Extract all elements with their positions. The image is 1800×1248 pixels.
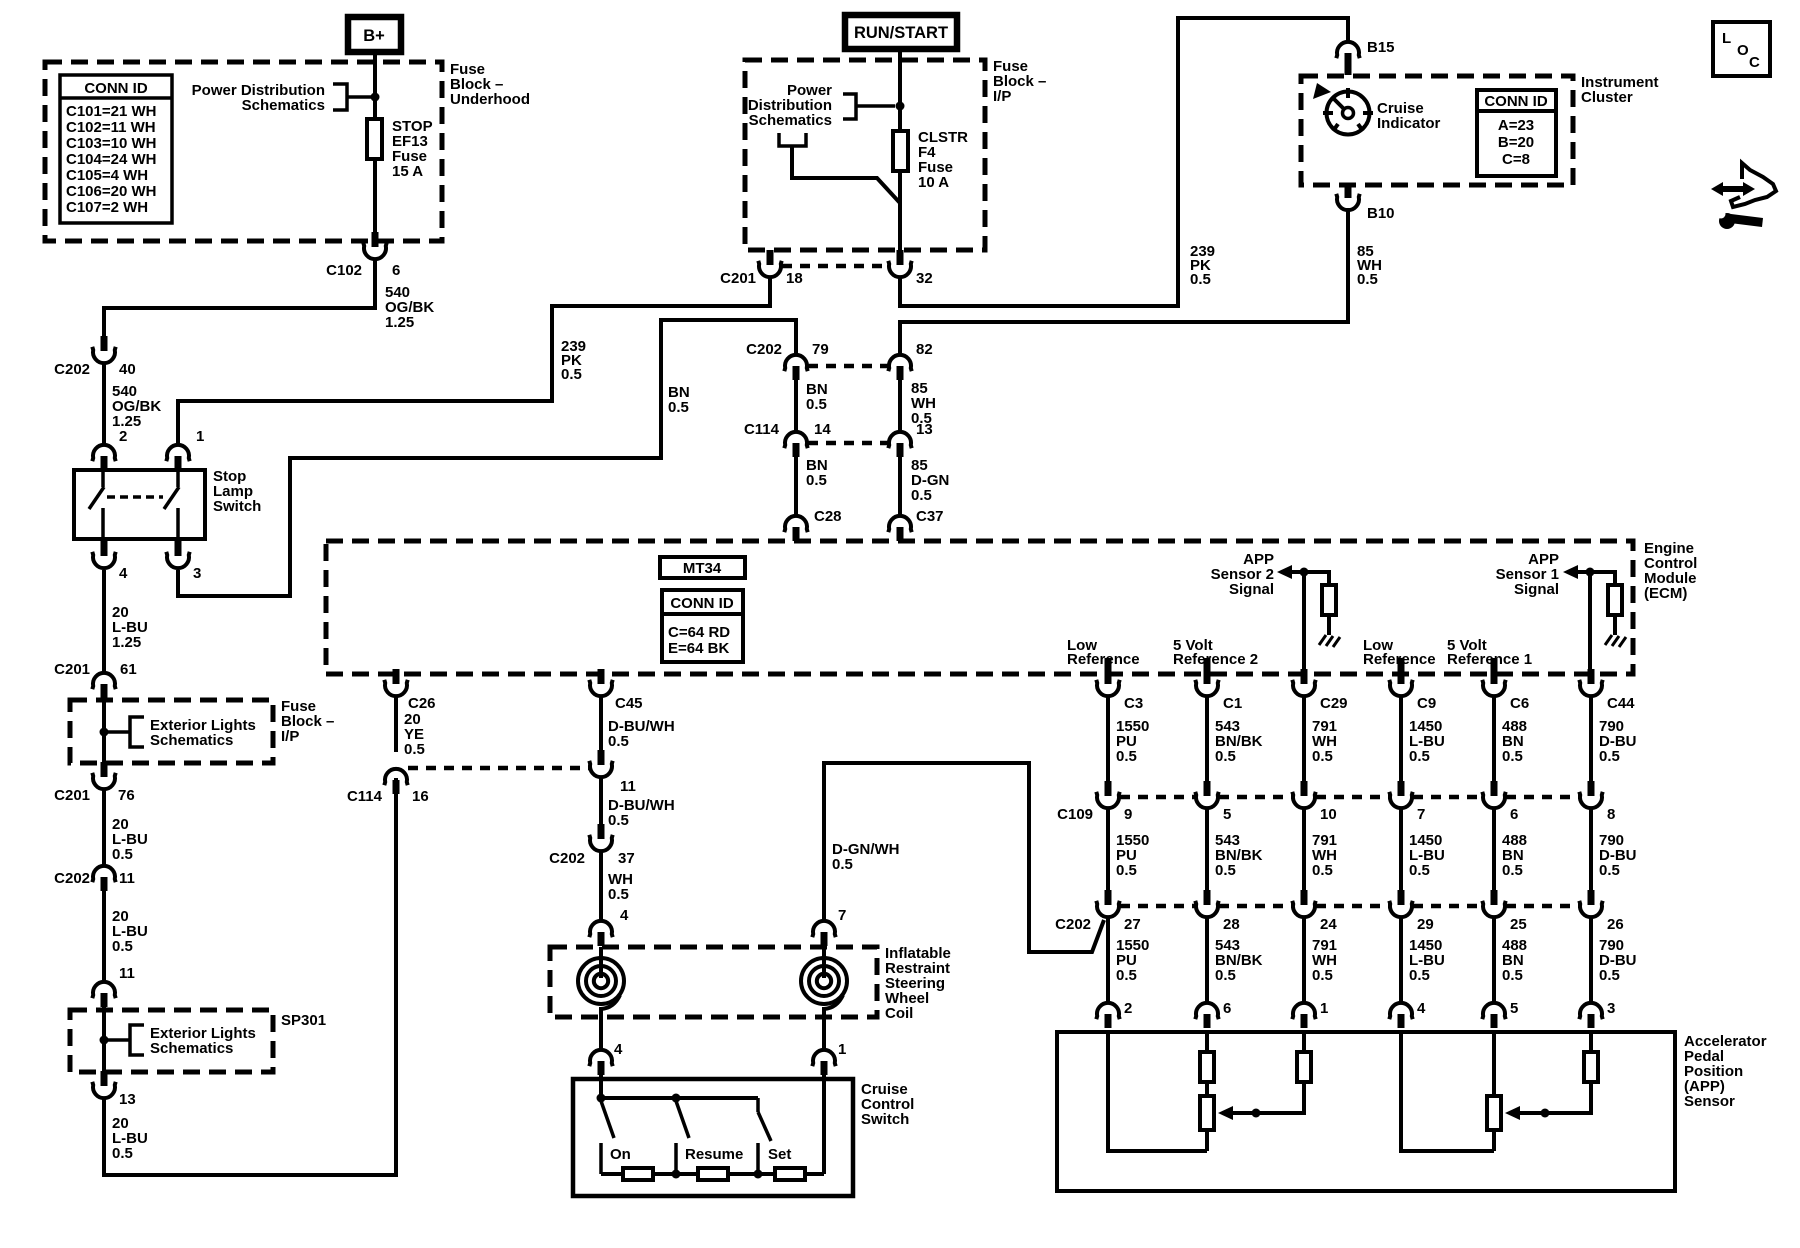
wire label 20 YE 0.5 (404, 711, 425, 758)
wire C9 down (1399, 695, 1403, 781)
dashed connector row C201 (782, 264, 888, 269)
wire label 543 BN/BK 0.5 (row3) (1215, 937, 1263, 984)
label 5 volt reference 1 (1447, 637, 1532, 668)
wire label 239 PK 0.5 (riser) (1190, 243, 1215, 288)
connector stop lamp pin 4 (92, 541, 128, 582)
svg-text:Underhood: Underhood (450, 91, 530, 108)
resistor resume (698, 1168, 728, 1180)
svg-text:C3: C3 (1124, 695, 1143, 712)
svg-text:C106=20 WH: C106=20 WH (66, 183, 156, 200)
svg-text:0.5: 0.5 (1312, 748, 1333, 765)
power feed RUN/START (845, 15, 957, 49)
label 5 volt reference 2 (1173, 637, 1258, 668)
wire fuse to C102 (373, 159, 377, 243)
coil spiral left (578, 947, 624, 1050)
switch contact left upper (101, 470, 105, 487)
wire pin 2 internal (1108, 1032, 1207, 1151)
svg-text:I/P: I/P (281, 728, 299, 745)
svg-text:Sensor: Sensor (1684, 1093, 1735, 1110)
wire pin 4 to C201-61 (102, 570, 106, 673)
junction dot wiper 2 (1252, 1109, 1261, 1118)
wire label 488 BN 0.5 (row1 col C6) (1502, 718, 1527, 765)
svg-text:C44: C44 (1607, 695, 1635, 712)
junction dot APP sensor 2 (1300, 568, 1309, 577)
label inflatable restraint steering wheel coil (885, 945, 951, 1022)
wire C202-40 to stop lamp switch pin 2 (102, 362, 106, 445)
wire to pull-up resistor 2 (1304, 572, 1329, 585)
wire label 1550 PU 0.5 (row3) (1116, 937, 1149, 984)
svg-text:0.5: 0.5 (1409, 748, 1430, 765)
potentiometer APP sensor 1 (1487, 1096, 1501, 1130)
wire label 540 OG/BK 1.25 (upper) (385, 284, 434, 331)
svg-text:0.5: 0.5 (1116, 967, 1137, 984)
instrument cluster box (1301, 76, 1573, 185)
svg-text:0.5: 0.5 (1312, 967, 1333, 984)
wire label 1550 PU 0.5 (row2) (1116, 832, 1149, 879)
connector C1 (1195, 669, 1242, 712)
svg-text:0.5: 0.5 (608, 812, 629, 829)
connector cruise pin 1 (812, 1050, 835, 1066)
svg-text:37: 37 (618, 850, 635, 867)
dashed connector row C114-16 to 11 (408, 766, 589, 771)
connector C109 pin 6 (1482, 781, 1518, 823)
wire label 85 WH 0.5 (above C114-13) (911, 380, 936, 427)
wire label BN 0.5 (above C114-14) (806, 381, 828, 413)
connector C3 (1096, 669, 1143, 712)
wire C1 down (1205, 695, 1209, 781)
svg-text:C114: C114 (347, 788, 383, 805)
svg-text:10 A: 10 A (918, 174, 949, 191)
connector C114 pin 13 (888, 421, 932, 457)
svg-text:C109: C109 (1057, 806, 1093, 823)
svg-text:0.5: 0.5 (1116, 862, 1137, 879)
svg-text:L: L (1722, 30, 1731, 47)
svg-text:0.5: 0.5 (1357, 271, 1378, 288)
connector C114 pin 16 (347, 769, 429, 805)
wire C109-7 down (1399, 807, 1403, 890)
connector SP301 pin 13 (92, 1071, 135, 1108)
resistor wiper feed (col 3) (1584, 1052, 1598, 1082)
svg-text:5: 5 (1223, 806, 1231, 823)
svg-text:C1: C1 (1223, 695, 1242, 712)
stub 5 volt reference 1 C6 (1491, 658, 1498, 674)
label power distribution schematics (underhood) (192, 82, 325, 114)
svg-text:Set: Set (768, 1146, 791, 1163)
wire label 791 WH 0.5 (row1 col C29) (1312, 718, 1337, 765)
label cruise control switch (861, 1081, 914, 1128)
svg-text:18: 18 (786, 270, 803, 287)
connector C202 pin 37 (549, 824, 635, 867)
resistor on (623, 1168, 653, 1180)
svg-text:0.5: 0.5 (1599, 748, 1620, 765)
label low reference (C9) (1363, 637, 1436, 668)
svg-text:1: 1 (838, 1041, 846, 1058)
wire D-GN/WH from ECM area to coil pin 7 (824, 763, 1104, 952)
connector C202 pin 25 (1482, 890, 1526, 933)
svg-text:1.25: 1.25 (112, 634, 141, 651)
wire label 1450 L-BU 0.5 (row1 col C9) (1409, 718, 1445, 765)
connector C28 (784, 508, 841, 541)
wire C202-37 to coil pin 4 (599, 850, 603, 921)
arrow APP sensor 2 (1277, 565, 1292, 579)
MT34 box (660, 557, 745, 578)
service icon wrench (1717, 210, 1764, 230)
label fuse block IP left (281, 698, 334, 745)
wire potentiometer to bottom (col 5) (1492, 1130, 1496, 1151)
connector C26 (384, 669, 435, 712)
svg-text:SP301: SP301 (281, 1012, 326, 1029)
wire label WH 0.5 (608, 871, 633, 903)
svg-text:26: 26 (1607, 916, 1624, 933)
connector stop lamp pin 1 (166, 445, 189, 461)
wire resistor 1 to ground (1613, 615, 1617, 635)
wire label 791 WH 0.5 (row2) (1312, 832, 1337, 879)
wire pin 4 into switch (599, 1075, 603, 1098)
dashed connector row C202 (1120, 904, 1195, 909)
wire label 791 WH 0.5 (row3) (1312, 937, 1337, 984)
svg-text:28: 28 (1223, 916, 1240, 933)
bracket to wire (IP) (843, 94, 856, 119)
ground APP sensor 2 (1319, 635, 1340, 647)
wire C29 down (1302, 695, 1306, 781)
svg-text:C202: C202 (54, 870, 90, 887)
svg-text:0.5: 0.5 (112, 846, 133, 863)
connector pin 11 (C45 chain) (589, 750, 636, 795)
svg-text:C101=21 WH: C101=21 WH (66, 103, 156, 120)
svg-text:0.5: 0.5 (608, 733, 629, 750)
resistor APP sensor 1 (1608, 585, 1622, 615)
connector C201 pin 18 (720, 250, 803, 287)
svg-text:0.5: 0.5 (1599, 862, 1620, 879)
wire C109-10 down (1302, 807, 1306, 890)
wire lower bracket to fuse output (792, 146, 900, 203)
svg-text:0.5: 0.5 (668, 399, 689, 416)
bracket exterior lights (upper) (104, 730, 130, 734)
svg-text:76: 76 (118, 787, 135, 804)
wire RUN/START down (898, 49, 902, 131)
lower bracket under schematics label (779, 133, 806, 146)
wire label BN 0.5 (riser) (668, 384, 690, 416)
svg-text:3: 3 (1607, 1000, 1615, 1017)
wire fuse to C201-32 (898, 171, 902, 251)
connector APP sensor pin 3 (1579, 1000, 1615, 1028)
resistor APP sensor 2 (1322, 585, 1336, 615)
wire C114-13 to C37 (898, 457, 902, 516)
wire label D-GN/WH 0.5 (832, 841, 900, 873)
wire inside SP301 (102, 1007, 106, 1072)
connector C109 pin 5 (1195, 781, 1231, 823)
svg-text:0.5: 0.5 (1502, 967, 1523, 984)
label power distribution schematics (IP) (748, 82, 832, 129)
engine control module box (326, 541, 1633, 674)
connector C6 (1482, 669, 1529, 712)
svg-text:RUN/START: RUN/START (854, 24, 948, 42)
connector APP sensor pin 6 (1195, 1000, 1231, 1028)
fuse STOP EF13 15A (367, 118, 433, 180)
junction dot RUN/START wire (896, 102, 905, 111)
svg-text:79: 79 (812, 341, 829, 358)
wire BN from pin 3 to C202-79 (178, 320, 796, 596)
connector C109 pin 10 (1292, 781, 1336, 823)
wire resistor to potentiometer (col 6) (1205, 1082, 1209, 1096)
svg-text:C104=24 WH: C104=24 WH (66, 151, 156, 168)
accelerator pedal position sensor box (1057, 1032, 1675, 1191)
svg-text:C202: C202 (1055, 916, 1091, 933)
stub low reference C9 (1398, 658, 1405, 674)
svg-text:CONN ID: CONN ID (84, 80, 148, 97)
arrow APP sensor 1 (1563, 565, 1578, 579)
bracket exterior lights (lower) (104, 1038, 130, 1042)
wire C202-82 to C114-13 (898, 380, 902, 432)
svg-text:Cluster: Cluster (1581, 89, 1633, 106)
wire pin 13 to C114-16 (104, 778, 396, 1175)
switch blade right (164, 487, 179, 509)
svg-text:C103=10 WH: C103=10 WH (66, 135, 156, 152)
wire label D-BU/WH 0.5 (upper) (608, 718, 675, 750)
svg-text:1.25: 1.25 (385, 314, 414, 331)
connector C202 pin 40 (54, 336, 136, 378)
junction dot B+ wire (371, 93, 380, 102)
svg-text:2: 2 (119, 428, 127, 445)
stub 5 volt reference 2 C1 (1204, 658, 1211, 674)
switch contact right lower (176, 508, 180, 539)
svg-text:32: 32 (916, 270, 933, 287)
svg-text:7: 7 (838, 907, 846, 924)
wire APP sensor 1 signal down (1588, 572, 1592, 670)
svg-text:11: 11 (620, 778, 636, 795)
junction dot bus resume (672, 1170, 681, 1179)
svg-text:0.5: 0.5 (1190, 271, 1211, 288)
wire label 488 BN 0.5 (row2) (1502, 832, 1527, 879)
svg-text:C45: C45 (615, 695, 643, 712)
svg-text:0.5: 0.5 (1502, 862, 1523, 879)
wire label 20 L-BU 1.25 (112, 604, 148, 651)
svg-text:82: 82 (916, 341, 933, 358)
label instrument cluster (1581, 74, 1659, 106)
wire bus to pin 1 (822, 1075, 826, 1174)
svg-text:15 A: 15 A (392, 163, 423, 180)
resistor APP 2 sensor (col 6) (1200, 1052, 1214, 1082)
label APP sensor 1 signal (1496, 551, 1559, 598)
resistor set (775, 1168, 805, 1180)
connector C109 pin 7 (1389, 781, 1425, 823)
connector C201 pin 76 (54, 762, 135, 804)
junction dot exterior lights tap (100, 728, 109, 737)
wire C202-28 down (1205, 916, 1209, 1003)
svg-text:C26: C26 (408, 695, 436, 712)
svg-text:8: 8 (1607, 806, 1615, 823)
wire C114-14 to C28 (794, 457, 798, 516)
svg-text:7: 7 (1417, 806, 1425, 823)
svg-text:Reference: Reference (1067, 651, 1140, 668)
wire label 1450 L-BU 0.5 (row3) (1409, 937, 1445, 984)
connector C29 (1292, 669, 1347, 712)
wire C6 down (1492, 695, 1496, 781)
wire C109-6 down (1492, 807, 1496, 890)
service icon arrow outline (1731, 163, 1776, 207)
connector coil pin 4 (589, 921, 612, 937)
connector C202 pin 24 (1292, 890, 1337, 933)
svg-text:C202: C202 (549, 850, 585, 867)
label low reference (C3) (1067, 637, 1140, 668)
svg-text:C6: C6 (1510, 695, 1529, 712)
wire B10 to C202-82 (85 WH) (900, 208, 1348, 355)
switch bus top (601, 1096, 758, 1100)
svg-text:CONN ID: CONN ID (670, 595, 734, 612)
svg-text:4: 4 (620, 907, 629, 924)
switch contact right upper (176, 470, 180, 487)
wiper arrow APP sensor 1 (1505, 1106, 1520, 1120)
svg-text:16: 16 (412, 788, 429, 805)
svg-text:25: 25 (1510, 916, 1527, 933)
svg-text:C37: C37 (916, 508, 944, 525)
contact set (756, 1143, 760, 1174)
svg-text:C201: C201 (54, 787, 90, 804)
svg-text:0.5: 0.5 (1116, 748, 1137, 765)
wire pin 5 to potentiometer (1492, 1032, 1496, 1096)
connector C202 pin 11 (54, 866, 135, 891)
dashed connector row C114 (808, 441, 888, 446)
stub low reference C3 (1105, 658, 1112, 674)
svg-text:B15: B15 (1367, 39, 1395, 56)
connector coil pin 7 (812, 921, 835, 937)
svg-text:0.5: 0.5 (911, 487, 932, 504)
connector C202 pin 79 (746, 341, 829, 380)
wire pin 4 internal (1401, 1032, 1494, 1151)
svg-text:0.5: 0.5 (1409, 862, 1430, 879)
svg-text:9: 9 (1124, 806, 1132, 823)
fuse block IP box (left) (70, 700, 273, 763)
connector C202 pin 28 (1195, 890, 1239, 933)
ground APP sensor 1 (1605, 635, 1626, 647)
svg-text:Indicator: Indicator (1377, 115, 1441, 132)
wire label 790 D-BU 0.5 (row1 col C44) (1599, 718, 1637, 765)
connector C202 pin 29 (1389, 890, 1433, 933)
svg-text:4: 4 (119, 565, 128, 582)
svg-text:C202: C202 (746, 341, 782, 358)
set branch drop (756, 1098, 760, 1112)
wire inside fuse block IP (102, 698, 106, 763)
wire C3 down (1106, 695, 1110, 781)
wire resistor 2 to ground (1327, 615, 1331, 635)
power feed B+ (348, 17, 401, 52)
wire pin 3 to resistor (col 3) (1589, 1032, 1593, 1052)
wire C202-27 down (1106, 916, 1110, 1003)
switch contact left lower (101, 508, 105, 539)
cruise control switch box (573, 1079, 853, 1196)
svg-text:On: On (610, 1146, 631, 1163)
svg-text:0.5: 0.5 (1215, 862, 1236, 879)
potentiometer APP sensor 2 (1200, 1096, 1214, 1130)
svg-text:24: 24 (1320, 916, 1337, 933)
svg-text:0.5: 0.5 (1312, 862, 1333, 879)
svg-text:CONN ID: CONN ID (1484, 93, 1548, 110)
connector C109 pin 9 (1096, 781, 1132, 823)
svg-text:C29: C29 (1320, 695, 1348, 712)
svg-text:0.5: 0.5 (1502, 748, 1523, 765)
svg-text:C201: C201 (54, 661, 90, 678)
wire pin 1 to resistor (col 1) (1302, 1032, 1306, 1052)
label fuse block underhood (450, 61, 530, 108)
wire C202-79 to C114-14 (794, 380, 798, 432)
fuse CLSTR F4 10A (893, 129, 968, 191)
svg-text:Coil: Coil (885, 1005, 913, 1022)
wire C44 down (1589, 695, 1593, 781)
SP301 box (70, 1010, 273, 1072)
wire label 20 L-BU 0.5 (3) (112, 1115, 148, 1162)
svg-text:14: 14 (814, 421, 831, 438)
wire C201-76 to C202-11 (102, 788, 106, 866)
svg-text:6: 6 (392, 262, 400, 279)
svg-text:2: 2 (1124, 1000, 1132, 1017)
junction dot bus set (754, 1170, 763, 1179)
wire C201-32 to B15 (239 PK) (900, 18, 1348, 306)
svg-text:C9: C9 (1417, 695, 1436, 712)
wire potentiometer to bottom (col 6) (1205, 1130, 1209, 1151)
svg-text:0.5: 0.5 (1409, 967, 1430, 984)
svg-text:Resume: Resume (685, 1146, 743, 1163)
fuse block underhood box (45, 62, 442, 241)
wire C109-8 down (1589, 807, 1593, 890)
connector C44 (1579, 669, 1635, 712)
wire label 790 D-BU 0.5 (row2) (1599, 832, 1637, 879)
connector APP sensor pin 2 (1096, 1000, 1132, 1028)
connector C102 pin 6 (326, 232, 400, 279)
dashed connector row C109 (1120, 795, 1195, 800)
wiper arrow APP sensor 2 (1218, 1106, 1233, 1120)
conn id table underhood (60, 75, 172, 223)
svg-text:Schematics: Schematics (749, 112, 832, 129)
svg-text:C201: C201 (720, 270, 756, 287)
wire label 85 WH 0.5 (cluster) (1357, 243, 1382, 288)
connector SP301 pin 11 (92, 982, 115, 998)
svg-text:4: 4 (614, 1041, 623, 1058)
svg-text:61: 61 (120, 661, 137, 678)
conn id box ECM (662, 590, 743, 662)
wire APP sensor 2 signal down (1302, 572, 1306, 670)
junction dot exterior lights tap (lower) (100, 1036, 109, 1045)
wire C45 to 11 (599, 695, 603, 751)
svg-text:C107=2 WH: C107=2 WH (66, 199, 148, 216)
svg-text:0.5: 0.5 (561, 366, 582, 383)
connector B15 (1336, 39, 1394, 75)
connector C114 pin 14 (744, 421, 831, 457)
connector C45 (589, 669, 642, 712)
svg-text:Switch: Switch (861, 1111, 909, 1128)
label fuse block IP top (993, 58, 1046, 105)
svg-text:O: O (1737, 42, 1749, 59)
svg-text:13: 13 (916, 421, 933, 438)
label engine control module (1644, 540, 1697, 602)
svg-text:0.5: 0.5 (806, 472, 827, 489)
coil spiral right (801, 947, 847, 1050)
wire C202-25 down (1492, 916, 1496, 1003)
connector B10 (1336, 183, 1394, 222)
label exterior lights schematics (lower) (150, 1025, 256, 1057)
connector stop lamp pin 2 (92, 445, 115, 461)
svg-text:11: 11 (119, 965, 135, 982)
wire label 790 D-BU 0.5 (row3) (1599, 937, 1637, 984)
connector C9 (1389, 669, 1436, 712)
svg-text:Schematics: Schematics (150, 1040, 233, 1057)
wire label 543 BN/BK 0.5 (row1 col C1) (1215, 718, 1263, 765)
switch mechanical link (dashed) (107, 495, 163, 499)
resistor wiper feed (col 1) (1297, 1052, 1311, 1082)
svg-text:0.5: 0.5 (1599, 967, 1620, 984)
wire label 239 PK 0.5 (left) (561, 338, 586, 383)
wire label D-BU/WH 0.5 (lower) (608, 797, 675, 829)
label APP sensor 2 signal (1211, 551, 1274, 598)
